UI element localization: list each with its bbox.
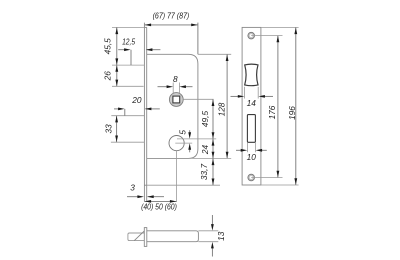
dimension 10 xyxy=(247,143,255,153)
svg-text:8: 8 xyxy=(173,74,178,84)
right side extension lines of case view xyxy=(147,54,232,185)
bottom view extension lines xyxy=(198,231,218,242)
latch opening xyxy=(245,64,258,86)
dimension 176 xyxy=(277,36,279,178)
bolt opening xyxy=(247,115,255,143)
spindle center extension line xyxy=(183,98,213,100)
faceplate front view xyxy=(242,27,261,185)
svg-text:12,5: 12,5 xyxy=(122,37,135,47)
svg-text:26: 26 xyxy=(103,71,113,82)
cylinder centre vertical line xyxy=(176,151,178,202)
dimension 49,5 xyxy=(212,99,214,139)
svg-text:3: 3 xyxy=(130,183,135,193)
svg-text:33: 33 xyxy=(103,124,113,134)
svg-text:(40) 50 (60): (40) 50 (60) xyxy=(141,202,177,212)
lock case outline xyxy=(147,54,198,158)
svg-text:13: 13 xyxy=(216,231,226,241)
svg-text:176: 176 xyxy=(267,105,277,119)
dimension 45,5 xyxy=(116,27,118,86)
dimension 33 xyxy=(116,116,118,143)
bottom screw hole xyxy=(248,174,255,181)
cylinder hole xyxy=(169,136,184,151)
svg-text:24: 24 xyxy=(200,145,210,156)
dimension 196 xyxy=(295,27,297,185)
svg-text:20: 20 xyxy=(131,95,142,105)
svg-text:33,7: 33,7 xyxy=(199,164,209,181)
svg-text:5: 5 xyxy=(177,130,187,135)
svg-text:10: 10 xyxy=(247,152,257,162)
svg-text:45,5: 45,5 xyxy=(103,38,113,55)
backset dimension (40) 50 (60) xyxy=(144,200,176,202)
dimension 14 xyxy=(245,87,259,99)
svg-text:14: 14 xyxy=(247,98,257,108)
bottom view: bolt body xyxy=(147,231,199,242)
svg-text:(67) 77 (87): (67) 77 (87) xyxy=(153,10,190,20)
dimension 13 xyxy=(211,215,213,257)
dimension 77 line xyxy=(144,23,198,55)
svg-text:128: 128 xyxy=(216,102,226,116)
dimension 128 xyxy=(226,54,228,158)
dimension 5 xyxy=(189,130,191,152)
dimension 77 arrows xyxy=(145,24,198,27)
dimension 24 xyxy=(212,139,214,159)
bottom view: faceplate bar xyxy=(144,228,147,247)
screw hole centre extension lines xyxy=(251,27,298,185)
left dim block: extension lines xyxy=(111,27,144,142)
dimension 26 xyxy=(115,65,118,86)
svg-text:196: 196 xyxy=(287,106,297,120)
top screw hole xyxy=(248,32,255,39)
spindle hole (square follower) xyxy=(169,93,183,107)
cylinder reference lines xyxy=(175,139,216,143)
svg-text:49,5: 49,5 xyxy=(200,111,210,128)
dimension 33,7 xyxy=(212,158,214,185)
bottom view: latch bevel diagonal xyxy=(134,231,144,241)
bottom view: latch head xyxy=(128,233,144,241)
faceplate side view xyxy=(144,23,146,202)
